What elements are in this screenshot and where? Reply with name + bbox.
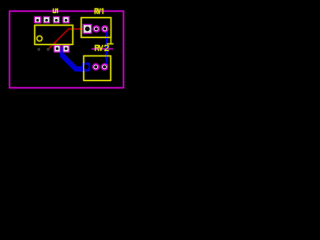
label RV1 [95,9,103,14]
RV1 silkscreen marker below body [107,37,114,44]
U1 pin-1 marker circle [37,36,42,41]
label RV2 [95,45,108,50]
RV2 pad 3 [101,63,108,70]
RV2 pad 1 (square, bottom copper) [82,63,90,71]
via A below U1 [38,48,40,50]
label U1 [53,9,57,13]
wire: bottom-copper trace U1 pad5/6 to RV2 pad1 [60,47,86,71]
RV1 pad 2 [93,25,100,32]
wire: bottom-copper trace RV1 pad3 to RV2 pad3 [106,30,108,65]
U1 pad 5 (bottom) [54,45,61,52]
U1 pad 6 (bottom) [63,45,70,52]
U1 pad 2 [43,16,50,23]
via B below U1 [47,48,49,50]
background [0,0,134,98]
U1 pad 1 [34,16,41,23]
U1 pad 3 [53,16,60,23]
U1 pad 4 [63,16,70,23]
RV2 silkscreen body [84,56,111,81]
RV1 pad 3 [101,25,108,32]
RV2 courtyard top line [92,48,114,50]
U1 silkscreen body [35,25,73,44]
RV1 pad 1 (square) [83,24,92,33]
RV1 silkscreen body [81,18,111,38]
wire: top-copper trace via to RV1 pad1 [48,29,87,49]
board outline Edge.Cuts [10,11,124,88]
RV2 pad 2 [92,63,99,70]
